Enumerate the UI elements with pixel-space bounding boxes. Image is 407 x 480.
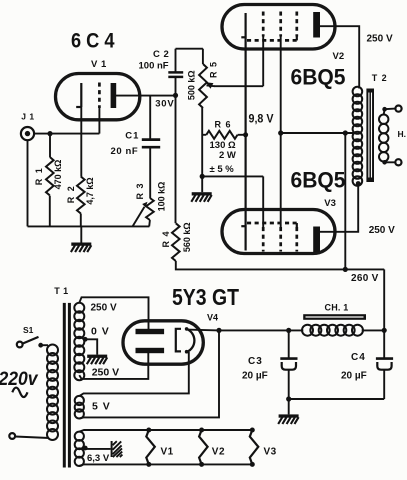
svg-text:6,3 V: 6,3 V xyxy=(87,453,110,464)
terminal mains bottom xyxy=(9,433,15,439)
svg-text:5Y3 GT: 5Y3 GT xyxy=(172,284,239,310)
node V4 output xyxy=(216,328,221,333)
svg-text:500 kΩ: 500 kΩ xyxy=(186,70,196,100)
svg-text:20 µF: 20 µF xyxy=(341,371,367,382)
jack J1 xyxy=(21,127,34,140)
svg-text:V1: V1 xyxy=(161,447,174,458)
T1 6.3V winding xyxy=(75,432,84,466)
choke CH.1 coil xyxy=(302,325,363,336)
svg-text:250 V: 250 V xyxy=(92,366,119,378)
V3 g1 dashed xyxy=(262,227,265,252)
node plate/C2/R4 xyxy=(173,93,178,98)
svg-text:C 2: C 2 xyxy=(153,49,169,60)
mains sine symbol xyxy=(12,388,27,398)
V2 internal g3-cathode strap xyxy=(296,37,298,41)
heater chevron V1 xyxy=(146,430,155,464)
svg-text:V3: V3 xyxy=(264,447,277,458)
svg-text:100 nF: 100 nF xyxy=(139,60,169,71)
resistor R4 560k xyxy=(172,223,180,261)
wire V3 grid return xyxy=(202,175,263,177)
wire T2 secondary bottom to terminal xyxy=(384,161,396,164)
T1 5V winding xyxy=(75,396,84,419)
ground xyxy=(71,243,91,253)
svg-text:0 V: 0 V xyxy=(91,326,110,338)
terminal H bottom xyxy=(395,159,401,165)
svg-text:± 5 %: ± 5 % xyxy=(210,164,235,175)
svg-text:V3: V3 xyxy=(324,198,336,209)
tube V4 (5Y3GT) envelope xyxy=(123,321,203,364)
svg-text:250 V: 250 V xyxy=(91,303,117,314)
svg-text:100 kΩ: 100 kΩ xyxy=(156,182,166,212)
capacitor C4 20uF xyxy=(383,330,385,357)
svg-text:4,7 kΩ: 4,7 kΩ xyxy=(85,177,95,204)
V3 cathode foot xyxy=(241,225,245,227)
wire V2 plate to T2 xyxy=(320,26,359,88)
wire R4 bottom to 260V rail xyxy=(176,261,384,269)
V2 plate xyxy=(313,12,320,38)
svg-text:V 1: V 1 xyxy=(91,59,107,70)
svg-text:9,8 V: 9,8 V xyxy=(249,114,274,126)
V2 cathode xyxy=(241,36,245,38)
svg-text:470 kΩ: 470 kΩ xyxy=(53,160,63,190)
svg-text:R 3: R 3 xyxy=(135,182,145,199)
wire CT down to 260V rail xyxy=(344,133,346,269)
wire 260V rail right drop xyxy=(383,269,385,330)
svg-text:2 W: 2 W xyxy=(219,150,236,161)
resistor R2 4.7k xyxy=(77,177,85,214)
V2 g3 dashed xyxy=(295,12,298,37)
ground rail xyxy=(28,225,150,227)
svg-text:R 6: R 6 xyxy=(215,120,232,130)
tube V2 (6BQ5) envelope xyxy=(222,5,335,50)
svg-text:260 V: 260 V xyxy=(351,273,379,284)
wire 5V top to V4 filament xyxy=(79,352,189,396)
wire V3 plate to T2 xyxy=(320,184,358,232)
wire S1 to T1 primary xyxy=(41,344,48,346)
wire 6.3V mid tap to ground (rotated) xyxy=(85,448,110,450)
svg-text:220v: 220v xyxy=(0,369,39,390)
terminal H top xyxy=(395,106,401,112)
wire mains bottom to coil xyxy=(15,437,49,439)
node 0V tap xyxy=(83,337,88,342)
V1 grid (dashed) xyxy=(98,83,101,109)
wire V2 grid lead xyxy=(262,37,264,87)
cathode bus V2-R6-V3 xyxy=(245,13,247,251)
T1 HV secondary coil xyxy=(74,303,84,380)
svg-text:20 µF: 20 µF xyxy=(242,371,268,382)
switch S1 terminal left xyxy=(17,342,23,348)
transformer T2 core xyxy=(366,89,374,183)
wire V1 cathode drop xyxy=(80,107,82,177)
resistor R1 470k xyxy=(49,134,51,157)
V4 plate bottom xyxy=(136,348,165,353)
wire R5 bottom down to R6 node and ground xyxy=(201,108,203,176)
wire V4 output xyxy=(187,329,219,332)
tube V3 (6BQ5) envelope xyxy=(222,210,335,254)
wire T2 center tap xyxy=(281,132,354,134)
T1 primary coil xyxy=(47,345,58,441)
resistor R3 100k (pot) xyxy=(146,198,154,220)
wire C2 top to R5 xyxy=(176,48,203,50)
svg-text:6BQ5: 6BQ5 xyxy=(291,168,346,193)
wire V1 plate out xyxy=(114,95,176,97)
transformer T2 primary coil xyxy=(353,87,363,186)
capacitor C1 20nF xyxy=(149,96,151,139)
svg-text:R 2: R 2 xyxy=(66,185,76,204)
svg-text:C1: C1 xyxy=(125,130,139,141)
wire 6.3V top heater rail xyxy=(79,430,252,432)
ground bottom center xyxy=(288,399,290,414)
wire long plate line down to R4 xyxy=(175,95,177,223)
svg-text:6 C 4: 6 C 4 xyxy=(71,29,115,53)
svg-text:J 1: J 1 xyxy=(21,111,34,121)
svg-text:V2: V2 xyxy=(333,51,345,62)
capacitor C3 20uF xyxy=(288,330,290,357)
heater chevron V2 xyxy=(199,430,208,464)
svg-text:R 1: R 1 xyxy=(34,167,44,186)
wire choke left lead to V4 node xyxy=(219,329,303,331)
svg-text:V2: V2 xyxy=(212,447,225,458)
svg-text:T 1: T 1 xyxy=(54,286,69,296)
heater chevron V3 xyxy=(250,430,259,464)
tube V1 (6C4) envelope xyxy=(56,74,140,120)
wire 6.3V bottom heater rail xyxy=(79,464,252,465)
V4 filament bracket xyxy=(176,329,181,352)
V1 plate xyxy=(111,83,117,108)
V3 g2 dashed xyxy=(279,227,282,252)
resistor R6 130ohm xyxy=(202,134,206,136)
svg-text:R 5: R 5 xyxy=(208,61,218,78)
svg-text:C4: C4 xyxy=(351,352,366,363)
wire 250V top tap to V4 plate xyxy=(79,297,148,331)
svg-text:V4: V4 xyxy=(207,313,218,323)
wire 5V bottom to V4 output node xyxy=(79,330,219,418)
svg-text:6BQ5: 6BQ5 xyxy=(291,65,346,90)
node choke right xyxy=(382,328,387,333)
switch S1 lever xyxy=(23,337,39,344)
svg-text:R 4: R 4 xyxy=(161,230,171,247)
wire J1 ground drop xyxy=(27,140,29,226)
wire choke right lead xyxy=(362,329,385,331)
R5 wiper arrow and wire to V2 grid xyxy=(206,82,214,88)
choke CH.1 core xyxy=(303,314,366,320)
bottom rail C3-C4 xyxy=(289,398,385,400)
svg-text:250 V: 250 V xyxy=(369,225,395,236)
capacitor C2 100nF xyxy=(175,49,177,72)
svg-text:T 2: T 2 xyxy=(372,73,388,83)
svg-text:C3: C3 xyxy=(248,356,263,367)
svg-text:S1: S1 xyxy=(23,325,34,335)
V3 internal strap xyxy=(296,223,298,227)
wire J1 to V1 grid xyxy=(34,133,99,135)
node C3 top xyxy=(286,328,291,333)
V2 g1 dashed xyxy=(262,12,265,37)
wire 0V tap to ground xyxy=(85,339,97,354)
node R1 top xyxy=(47,131,52,136)
wire 250V lower tap to V4 plate 2 xyxy=(79,351,148,379)
svg-text:5 V: 5 V xyxy=(92,401,111,413)
screen bus V2-V3 xyxy=(280,37,282,228)
wire T2 secondary top to terminal xyxy=(384,109,396,115)
transformer T2 secondary coil xyxy=(379,115,388,162)
resistor R5 500k pot xyxy=(199,64,207,108)
svg-text:CH. 1: CH. 1 xyxy=(325,303,349,313)
R3 wiper arrow xyxy=(133,207,145,226)
node 6.3V mid tap xyxy=(83,446,88,451)
node CT to B+ xyxy=(343,130,348,135)
svg-text:560 kΩ: 560 kΩ xyxy=(182,222,192,252)
svg-text:20 nF: 20 nF xyxy=(111,146,139,157)
V3 g3 dashed xyxy=(295,227,298,252)
V4 filament arc xyxy=(187,329,195,352)
svg-text:250 V: 250 V xyxy=(367,34,393,45)
node screen / T2 CT xyxy=(278,130,283,135)
svg-text:H.: H. xyxy=(398,129,407,139)
V2 g2 dashed xyxy=(279,12,282,37)
V1 cathode xyxy=(80,83,82,107)
T1 core xyxy=(63,303,66,468)
V4 plate top xyxy=(136,329,165,334)
svg-text:30V: 30V xyxy=(155,99,174,110)
V3 plate xyxy=(313,227,320,253)
